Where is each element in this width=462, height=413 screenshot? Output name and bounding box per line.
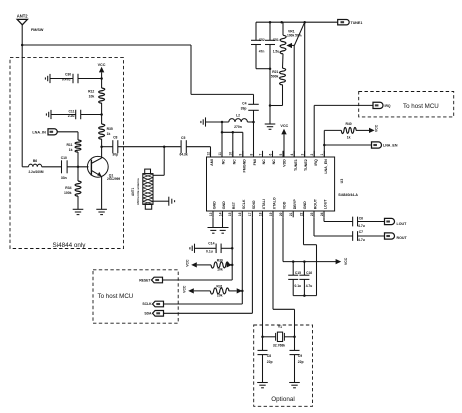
svg-text:LNA_EN: LNA_EN (324, 159, 328, 174)
svg-text:VCC: VCC (344, 257, 348, 265)
svg-text:AM Ferrite antenna: AM Ferrite antenna (136, 178, 140, 205)
svg-text:6: 6 (268, 154, 272, 156)
svg-text:FMGND: FMGND (242, 159, 246, 173)
svg-text:To host MCU: To host MCU (403, 103, 439, 110)
svg-text:VDD: VDD (283, 159, 287, 167)
svg-text:32.768k: 32.768k (273, 343, 285, 347)
svg-text:SCLK: SCLK (142, 302, 152, 306)
svg-text:L2: L2 (236, 114, 240, 118)
svg-text:4.7u: 4.7u (358, 224, 365, 228)
svg-text:Y1: Y1 (278, 325, 282, 329)
svg-text:22p: 22p (267, 360, 273, 364)
svg-text:4: 4 (290, 154, 294, 156)
svg-text:NC: NC (262, 159, 266, 165)
svg-text:2: 2 (310, 154, 314, 156)
svg-text:23: 23 (310, 212, 314, 216)
svg-text:47n: 47n (259, 50, 265, 54)
svg-text:LOUT: LOUT (324, 199, 328, 210)
svg-text:VCC: VCC (186, 259, 190, 267)
svg-text:FMI: FMI (253, 159, 257, 165)
svg-text:GND: GND (222, 201, 226, 209)
svg-text:C52: C52 (259, 38, 265, 42)
svg-text:RESET: RESET (139, 279, 151, 283)
svg-text:R34: R34 (65, 186, 71, 190)
svg-text:C15: C15 (295, 271, 301, 275)
svg-text:TUNE1: TUNE1 (294, 159, 298, 171)
svg-text:14: 14 (218, 212, 222, 216)
svg-text:R31: R31 (216, 285, 222, 289)
svg-text:TUNE1: TUNE1 (351, 21, 363, 25)
svg-text:TUNE2: TUNE2 (304, 159, 308, 171)
svg-text:4.7u: 4.7u (358, 238, 365, 242)
svg-text:10k: 10k (217, 267, 223, 271)
svg-text:10: 10 (229, 152, 233, 156)
svg-text:NC: NC (222, 159, 226, 165)
svg-text:GND: GND (213, 201, 217, 209)
svg-text:2.2u/100M: 2.2u/100M (28, 170, 43, 174)
svg-text:R35: R35 (107, 127, 113, 131)
svg-text:C9: C9 (298, 354, 302, 358)
svg-text:16: 16 (238, 212, 242, 216)
svg-text:22: 22 (299, 212, 303, 216)
svg-text:Si4840/44-A: Si4840/44-A (338, 193, 358, 197)
svg-text:DBYP: DBYP (293, 199, 297, 210)
svg-text:4.7u: 4.7u (306, 284, 313, 288)
svg-text:C8: C8 (267, 354, 271, 358)
svg-text:0.1u: 0.1u (295, 284, 302, 288)
svg-text:1.5u: 1.5u (273, 50, 280, 54)
svg-text:RST: RST (232, 201, 236, 209)
svg-text:22p: 22p (298, 360, 304, 364)
svg-text:9: 9 (239, 154, 243, 156)
svg-text:21: 21 (289, 212, 293, 216)
svg-text:5: 5 (279, 154, 283, 156)
svg-text:0.1u: 0.1u (206, 249, 213, 253)
svg-text:33n: 33n (61, 176, 67, 180)
svg-text:C14: C14 (208, 241, 214, 245)
svg-text:100k: 100k (64, 191, 72, 195)
svg-text:19: 19 (269, 212, 273, 216)
svg-text:R12: R12 (88, 90, 94, 94)
svg-text:10k: 10k (217, 293, 223, 297)
svg-text:LNA_EN: LNA_EN (383, 143, 398, 147)
svg-text:LOUT: LOUT (397, 222, 408, 226)
svg-text:15: 15 (228, 212, 232, 216)
svg-text:12: 12 (206, 152, 210, 156)
svg-text:VCC: VCC (98, 63, 106, 67)
svg-text:30p: 30p (112, 152, 118, 156)
svg-text:C10: C10 (61, 156, 67, 160)
svg-text:1k: 1k (107, 132, 111, 136)
svg-text:Si4844 only: Si4844 only (53, 242, 87, 249)
svg-text:R21: R21 (272, 70, 278, 74)
svg-text:VCC: VCC (183, 285, 187, 293)
svg-text:C7: C7 (359, 230, 363, 234)
svg-text:39p: 39p (241, 107, 247, 111)
svg-text:1k: 1k (69, 148, 73, 152)
svg-text:ROUT: ROUT (314, 198, 318, 209)
svg-text:C8: C8 (113, 136, 117, 140)
svg-text:270n: 270n (234, 125, 242, 129)
svg-text:8: 8 (249, 154, 253, 156)
svg-text:VDD: VDD (283, 201, 287, 209)
svg-text:C6: C6 (359, 217, 363, 221)
svg-text:7: 7 (258, 154, 262, 156)
svg-text:C5: C5 (181, 136, 185, 140)
svg-text:SDIO: SDIO (252, 200, 256, 209)
svg-text:IRQ: IRQ (314, 159, 318, 166)
svg-text:0.47u: 0.47u (62, 78, 71, 82)
svg-text:2.2u: 2.2u (68, 114, 75, 118)
svg-text:24: 24 (320, 212, 324, 216)
svg-text:ANT1: ANT1 (131, 188, 135, 196)
svg-text:2SC2999: 2SC2999 (107, 177, 120, 181)
svg-text:XTALO: XTALO (273, 197, 277, 209)
svg-text:1k: 1k (347, 136, 351, 140)
svg-text:To host MCU: To host MCU (98, 293, 134, 300)
svg-text:R30: R30 (217, 259, 223, 263)
svg-text:ANT2: ANT2 (17, 14, 29, 19)
svg-text:VCC: VCC (280, 124, 288, 128)
svg-text:SDA: SDA (144, 312, 152, 316)
svg-text:U3: U3 (340, 179, 344, 184)
svg-text:NC: NC (272, 159, 276, 165)
svg-text:AMI: AMI (210, 159, 214, 166)
svg-text:11: 11 (218, 152, 222, 156)
svg-text:ROUT: ROUT (397, 236, 408, 240)
svg-text:R40: R40 (345, 122, 351, 126)
svg-text:64.3k: 64.3k (180, 152, 188, 156)
svg-text:XTALI: XTALI (262, 199, 266, 209)
svg-text:C4: C4 (242, 102, 246, 106)
svg-text:C16: C16 (306, 271, 312, 275)
svg-text:R11: R11 (66, 143, 72, 147)
svg-text:IRQ: IRQ (385, 104, 391, 108)
svg-text:20: 20 (279, 212, 283, 216)
svg-text:FM/SW: FM/SW (31, 28, 44, 32)
svg-text:10k: 10k (89, 95, 95, 99)
svg-text:C30: C30 (65, 73, 71, 77)
svg-text:1: 1 (320, 154, 324, 156)
svg-text:13: 13 (209, 212, 213, 216)
svg-text:3: 3 (300, 154, 304, 156)
svg-text:SCLK: SCLK (242, 199, 246, 209)
svg-text:NC: NC (232, 159, 236, 165)
svg-text:GND: GND (303, 201, 307, 209)
svg-text:B6: B6 (33, 159, 37, 163)
svg-text:C51: C51 (273, 38, 279, 42)
svg-text:18: 18 (258, 212, 262, 216)
svg-text:17: 17 (248, 212, 252, 216)
svg-text:LNA_IN: LNA_IN (32, 130, 46, 134)
svg-text:500k: 500k (271, 75, 279, 79)
svg-text:VCC: VCC (375, 124, 379, 132)
svg-text:Optional: Optional (271, 396, 294, 403)
